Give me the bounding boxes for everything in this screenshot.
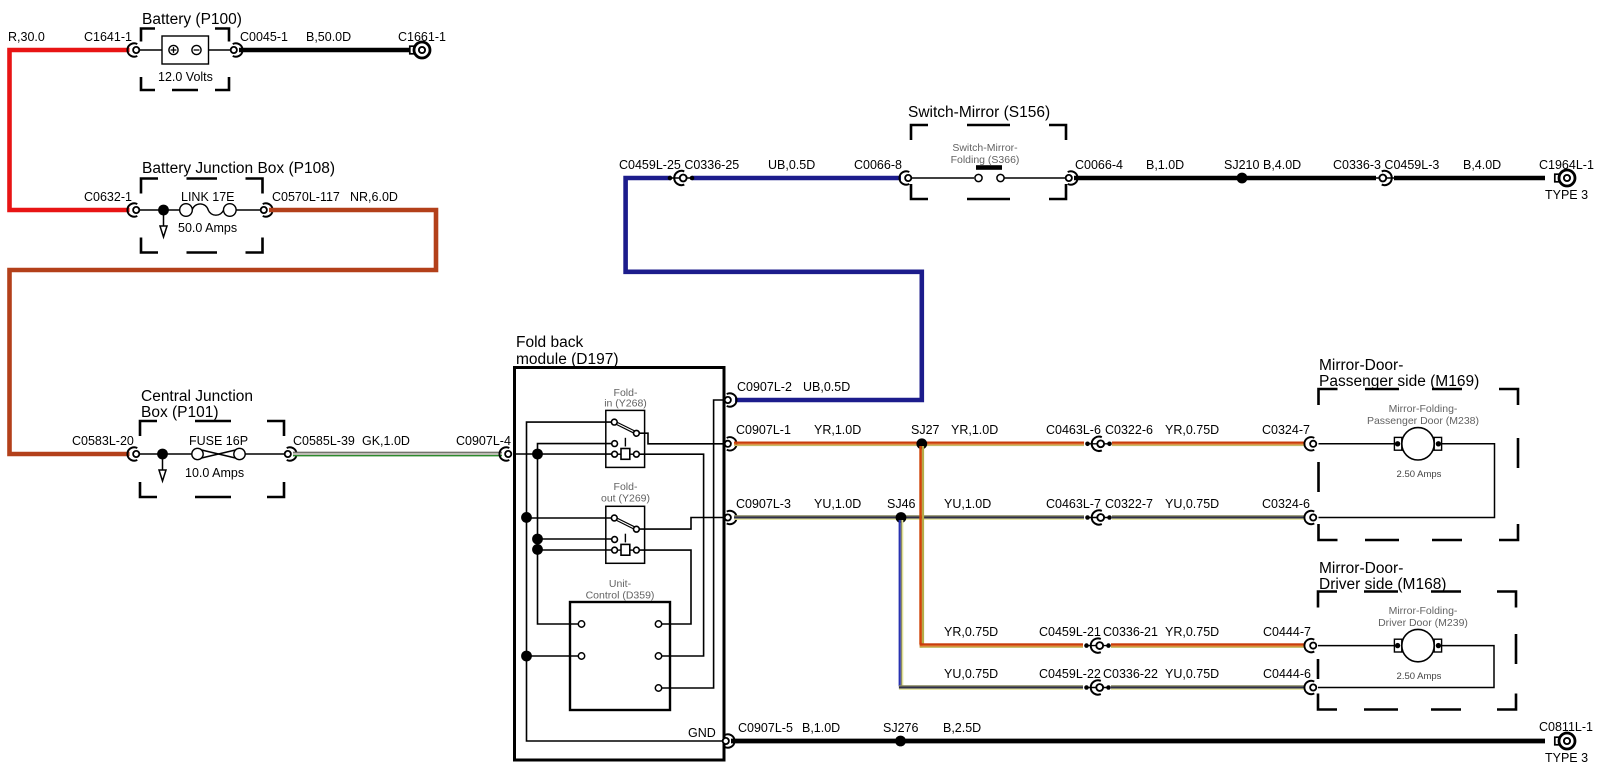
svg-text:TYPE 3: TYPE 3	[1545, 751, 1588, 765]
svg-text:C0066-4: C0066-4	[1075, 158, 1123, 172]
ground ring terminal C0811L-1	[1555, 733, 1575, 749]
connector C0324-7	[1304, 437, 1316, 450]
svg-text:Switch-Mirror-: Switch-Mirror-	[952, 142, 1018, 154]
switch S366 contacts	[975, 165, 1004, 181]
svg-text:C0811L-1: C0811L-1	[1539, 720, 1593, 734]
unit-control D359 box	[570, 602, 670, 710]
wire S156 internal left	[911, 177, 974, 179]
svg-text:C0632-1: C0632-1	[84, 190, 132, 204]
connector C0066-4	[1066, 171, 1078, 184]
wire UB,0.5D switch side	[692, 176, 901, 181]
inline connector pair C0459L-22 C0336-22	[1084, 680, 1111, 694]
junction node in P108	[158, 205, 169, 216]
wire GK,1.0D from P101 to D197	[293, 452, 502, 457]
svg-text:C0324-6: C0324-6	[1262, 497, 1310, 511]
connector C0907L-5	[723, 734, 735, 747]
fuse FUSE 16P	[192, 448, 245, 459]
connector C0444-6	[1304, 681, 1316, 694]
junction dot on input at vertical bus	[532, 449, 543, 460]
wire D197 input from C0907L-4 to Y268 coil	[515, 453, 614, 455]
junction node in P101	[157, 449, 168, 460]
arrow to other circuits from P108 node	[160, 212, 167, 237]
wire YR,1.0D from D197 to C0463L-6	[734, 442, 1084, 447]
wire YR,0.75D corner	[920, 643, 923, 648]
svg-text:YU,0.75D: YU,0.75D	[1165, 667, 1219, 681]
pin D359 left 2	[570, 653, 585, 659]
junction dot bus537 Y269 coil pin	[532, 544, 543, 555]
svg-text:C0585L-39: C0585L-39	[293, 434, 355, 448]
battery P100 symbol	[162, 36, 209, 64]
wire Y269 coil to D359 right top pin	[639, 550, 691, 624]
wire R,30.0 battery positive feed	[10, 50, 130, 210]
svg-text:B,2.5D: B,2.5D	[943, 721, 981, 735]
svg-text:C0583L-20: C0583L-20	[72, 434, 134, 448]
inline connector pair C0463L-7 C0322-7	[1085, 510, 1112, 524]
junction dot bus526 D359 feed	[521, 651, 532, 662]
fusible link LINK 17E	[180, 204, 236, 217]
central junction box P101 bracket box	[140, 421, 284, 497]
junction dot bus537 Y269 switch pin	[532, 534, 543, 545]
svg-text:C0463L-7: C0463L-7	[1046, 497, 1101, 511]
svg-text:C0336-21: C0336-21	[1103, 625, 1158, 639]
wire bus526 branch to D359 left pin	[527, 655, 579, 657]
relay fold-in Y268	[606, 410, 645, 467]
svg-text:C0459L-22: C0459L-22	[1039, 667, 1101, 681]
wire vertical bus x526 Y268 switch to GND	[527, 422, 725, 741]
svg-text:Battery Junction Box (P108): Battery Junction Box (P108)	[142, 160, 335, 177]
svg-text:out (Y269): out (Y269)	[601, 493, 650, 505]
svg-text:Central Junction: Central Junction	[141, 388, 253, 405]
svg-text:C0907L-1: C0907L-1	[736, 423, 791, 437]
wire YU,0.75D to passenger mirror	[1112, 515, 1305, 520]
svg-text:2.50 Amps: 2.50 Amps	[1397, 671, 1442, 682]
wire YU,0.75D to C0459L-22	[899, 685, 1083, 690]
svg-text:YR,1.0D: YR,1.0D	[814, 423, 861, 437]
svg-text:GND: GND	[688, 726, 716, 740]
wire bus537 branch to Y269 switch pin	[538, 538, 613, 540]
mirror-door passenger M169 dashed box	[1319, 389, 1519, 540]
wire B,50.0D battery ground cable	[239, 48, 409, 53]
wire S156 internal right	[1004, 177, 1066, 179]
svg-text:GK,1.0D: GK,1.0D	[362, 434, 410, 448]
svg-text:Fold back: Fold back	[516, 334, 583, 351]
svg-text:C0463L-6: C0463L-6	[1046, 423, 1101, 437]
wire YU,0.75D to driver mirror	[1111, 685, 1305, 690]
wire M169 internal top left	[1319, 443, 1399, 445]
svg-text:YU,0.75D: YU,0.75D	[944, 667, 998, 681]
switch-mirror S156 bracket box	[911, 125, 1066, 199]
svg-text:Fold-: Fold-	[614, 481, 638, 493]
svg-text:B,4.0D: B,4.0D	[1263, 158, 1301, 172]
svg-text:YR,0.75D: YR,0.75D	[1165, 625, 1219, 639]
arrow to other circuits from P101 node	[159, 456, 166, 481]
svg-text:50.0 Amps: 50.0 Amps	[178, 221, 237, 235]
svg-text:B,1.0D: B,1.0D	[1146, 158, 1184, 172]
inline connector pair C0459L-21 C0336-21	[1084, 638, 1111, 652]
svg-text:12.0 Volts: 12.0 Volts	[158, 70, 213, 84]
svg-text:C0907L-3: C0907L-3	[736, 497, 791, 511]
connector C0907L-1	[725, 437, 737, 450]
wire M168 internal loop	[1318, 646, 1494, 688]
wire P108 internal left	[139, 209, 180, 211]
splice node SJ46	[896, 512, 907, 523]
svg-text:C1641-1: C1641-1	[84, 30, 132, 44]
wire YR,0.75D to C0459L-21	[920, 643, 1083, 648]
svg-text:C0570L-117: C0570L-117	[272, 190, 340, 204]
fold back module D197 box	[515, 368, 725, 761]
connector C0907L-3	[725, 511, 737, 524]
wire UB input to D359 right bottom pin	[662, 400, 724, 688]
ground ring terminal C1661-1	[410, 42, 430, 58]
svg-text:Mirror-Folding-: Mirror-Folding-	[1389, 605, 1458, 617]
mirror-door driver M168 dashed box	[1318, 592, 1516, 710]
motor mirror-folding driver door M239	[1394, 629, 1441, 661]
splice node SJ276	[895, 736, 906, 747]
connector C0045-1	[231, 43, 243, 56]
svg-text:C0459L-21: C0459L-21	[1039, 625, 1101, 639]
svg-text:YR,0.75D: YR,0.75D	[944, 625, 998, 639]
wire YR,0.75D to driver mirror	[1111, 643, 1305, 648]
svg-text:C0444-7: C0444-7	[1263, 625, 1311, 639]
svg-text:YU,1.0D: YU,1.0D	[944, 497, 991, 511]
svg-text:C0324-7: C0324-7	[1262, 423, 1310, 437]
svg-text:B,4.0D: B,4.0D	[1463, 158, 1501, 172]
svg-text:SJ276: SJ276	[883, 721, 918, 735]
wire M169 internal loop	[1319, 444, 1495, 518]
svg-text:UB,0.5D: UB,0.5D	[768, 158, 815, 172]
wire NR,6.0D from P108 to P101	[10, 210, 437, 454]
svg-text:C0336-22: C0336-22	[1103, 667, 1158, 681]
svg-text:Box (P101): Box (P101)	[141, 404, 219, 421]
svg-text:C0907L-2: C0907L-2	[737, 380, 792, 394]
splice node SJ210	[1237, 173, 1248, 184]
svg-text:LINK 17E: LINK 17E	[181, 190, 235, 204]
svg-text:C1661-1: C1661-1	[398, 30, 446, 44]
svg-text:YR,0.75D: YR,0.75D	[1165, 423, 1219, 437]
inline connector pair C0459L-25 C0336-25	[668, 171, 695, 185]
svg-text:Driver Door (M239): Driver Door (M239)	[1378, 617, 1468, 629]
connector C1641-1	[127, 43, 139, 56]
connector C0585L-39	[285, 447, 297, 460]
svg-text:NR,6.0D: NR,6.0D	[350, 190, 398, 204]
wire B,1.0D from S156 to SJ210	[1074, 176, 1242, 181]
relay fold-out Y269	[606, 506, 645, 563]
connector C0324-6	[1304, 511, 1316, 524]
connector C0444-7	[1304, 639, 1316, 652]
wire YU,1.0D from D197 to C0463L-7	[734, 515, 1084, 520]
pin D359 right 3	[655, 685, 670, 691]
svg-text:SJ27: SJ27	[911, 423, 940, 437]
svg-text:Battery (P100): Battery (P100)	[142, 11, 242, 28]
ground ring terminal C1964L-1	[1555, 170, 1575, 186]
battery P100 bracket box	[141, 29, 229, 91]
wire YU,0.75D vertical from SJ46	[899, 520, 904, 686]
connector C0907L-2	[725, 393, 737, 406]
svg-text:C0066-8: C0066-8	[854, 158, 902, 172]
svg-text:YR,1.0D: YR,1.0D	[951, 423, 998, 437]
pin D359 right 1	[655, 621, 670, 627]
wire battery internal right	[209, 49, 234, 51]
wire P108 internal right	[236, 209, 265, 211]
svg-text:C0322-7: C0322-7	[1105, 497, 1153, 511]
wire UB,0.5D from S156 to D197	[626, 178, 922, 400]
battery junction box P108 bracket box	[141, 179, 263, 253]
svg-text:UB,0.5D: UB,0.5D	[803, 380, 850, 394]
wire YR,0.75D vertical from SJ27	[919, 446, 924, 645]
wire P101 internal left	[139, 453, 192, 455]
wire YR,0.75D to passenger mirror	[1112, 442, 1305, 447]
svg-text:SJ46: SJ46	[887, 497, 916, 511]
junction dot bus526 Y269 switch feed	[521, 512, 532, 523]
connector C0907L-4	[499, 447, 511, 460]
svg-text:Mirror-Door-: Mirror-Door-	[1319, 560, 1403, 577]
motor mirror-folding passenger door M238	[1394, 428, 1441, 460]
svg-text:10.0 Amps: 10.0 Amps	[185, 466, 244, 480]
svg-text:Folding (S366): Folding (S366)	[951, 154, 1020, 166]
wire B,4.0D from SJ210 to C0336-3	[1242, 176, 1376, 181]
svg-text:C0322-6: C0322-6	[1105, 423, 1153, 437]
svg-text:Mirror-Folding-: Mirror-Folding-	[1389, 403, 1458, 415]
wire vertical bus x537 Y268 pin to D359 pin	[538, 444, 613, 624]
wire bus526 branch to Y269 switch pin	[527, 517, 613, 519]
svg-text:module (D197): module (D197)	[516, 351, 619, 368]
svg-text:C0045-1: C0045-1	[240, 30, 288, 44]
connector C0066-8	[899, 171, 911, 184]
svg-text:Unit-: Unit-	[609, 578, 632, 590]
svg-text:Mirror-Door-: Mirror-Door-	[1319, 357, 1403, 374]
wire Y268 switch output to C0907L-1	[639, 433, 724, 444]
svg-text:FUSE 16P: FUSE 16P	[189, 434, 248, 448]
wire B ground from D197 to C0811L-1	[731, 739, 1545, 744]
svg-text:in (Y268): in (Y268)	[604, 398, 647, 410]
svg-text:YU,0.75D: YU,0.75D	[1165, 497, 1219, 511]
svg-text:B,50.0D: B,50.0D	[306, 30, 351, 44]
svg-text:TYPE 3: TYPE 3	[1545, 188, 1588, 202]
wire Y269 switch output to C0907L-3	[639, 518, 724, 530]
svg-text:Passenger Door (M238): Passenger Door (M238)	[1367, 415, 1479, 427]
connector C0570L-117	[261, 203, 273, 216]
connector C0632-1	[127, 203, 139, 216]
wire Y268 coil to D359 right middle pin	[639, 454, 703, 656]
pin D359 right 2	[655, 653, 670, 659]
inline connector pair C0463L-6 C0322-6	[1085, 437, 1112, 451]
svg-text:R,30.0: R,30.0	[8, 30, 45, 44]
svg-text:B,1.0D: B,1.0D	[802, 721, 840, 735]
wire bus537 branch to Y269 coil pin	[538, 549, 613, 551]
wire P101 internal right	[245, 453, 287, 455]
connector C0583L-20	[127, 447, 139, 460]
wire battery internal left	[139, 49, 162, 51]
splice node SJ27	[916, 438, 927, 449]
svg-text:C0459L-25 C0336-25: C0459L-25 C0336-25	[619, 158, 739, 172]
svg-text:SJ210: SJ210	[1224, 158, 1259, 172]
svg-text:YU,1.0D: YU,1.0D	[814, 497, 861, 511]
pin D359 left 1	[570, 621, 585, 627]
svg-text:C0907L-5: C0907L-5	[738, 721, 793, 735]
svg-text:C0444-6: C0444-6	[1263, 667, 1311, 681]
svg-text:C0907L-4: C0907L-4	[456, 434, 511, 448]
wire B,4.0D from C0459L-3 to C1964L-1	[1394, 176, 1545, 181]
svg-text:Passenger side (M169): Passenger side (M169)	[1319, 373, 1479, 390]
svg-text:Switch-Mirror (S156): Switch-Mirror (S156)	[908, 104, 1050, 121]
wire M168 internal top left	[1318, 645, 1398, 647]
svg-text:Control (D359): Control (D359)	[586, 590, 655, 602]
svg-text:2.50 Amps: 2.50 Amps	[1397, 469, 1442, 480]
inline connector pair C0336-3 C0459L-3	[1376, 171, 1394, 185]
svg-text:C1964L-1: C1964L-1	[1539, 158, 1594, 172]
